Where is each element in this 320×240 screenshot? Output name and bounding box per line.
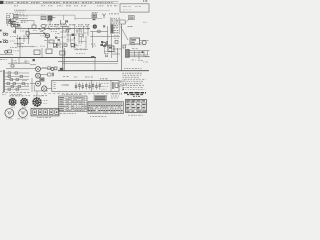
wide table column dividers <box>91 102 121 114</box>
converter extra labels <box>56 27 60 29</box>
det output cluster <box>108 46 114 51</box>
antenna transformer L1 <box>14 15 19 18</box>
left mixer box <box>26 32 30 35</box>
IF junction <box>74 37 76 39</box>
voltage chart rows <box>59 98 88 109</box>
P S terminal marks <box>53 82 56 88</box>
RF cluster extra ink <box>9 19 12 21</box>
wire jack to box <box>47 88 52 90</box>
tube layout header <box>10 95 25 97</box>
speaker stub wires <box>119 82 123 86</box>
jack resistor <box>48 67 51 70</box>
det labels right <box>114 26 119 28</box>
impedance labels <box>145 55 150 57</box>
dipole antenna Y symbol <box>102 14 105 19</box>
speaker field labels <box>126 44 135 46</box>
IF lower cluster 1 <box>64 44 67 46</box>
det extra vertical <box>104 44 112 54</box>
IF top text band <box>46 24 53 26</box>
right table caption <box>128 114 143 116</box>
wire to converter <box>20 46 34 57</box>
IF lower cluster 2 dark <box>71 43 74 46</box>
det lower marks <box>91 43 96 45</box>
header subtitle text <box>14 5 18 7</box>
det vertical mark <box>104 25 105 28</box>
det small box right <box>123 45 126 48</box>
voltage chart cell marks <box>69 96 70 99</box>
IF vertical right <box>85 36 87 48</box>
second AVC line <box>62 63 118 65</box>
RF cluster small dark square <box>17 24 19 26</box>
bottom dashed border <box>44 93 120 95</box>
voltage chart outer grid <box>59 96 88 111</box>
shielded coil dark <box>48 16 52 20</box>
mid above-bus labels <box>32 46 38 48</box>
bus end mark <box>91 55 95 57</box>
wire IF horizontal <box>60 26 68 28</box>
wire diagonal to stamp <box>125 20 128 23</box>
wide table caption <box>90 115 107 117</box>
wire V1 cathode <box>47 38 49 48</box>
box divider 1 <box>91 80 93 91</box>
RF cluster extra blob <box>12 22 15 25</box>
IF cap dark box <box>72 34 74 36</box>
speaker terminal ladder <box>129 51 149 57</box>
wide table header marks <box>89 101 91 104</box>
dark square on ground <box>60 68 63 71</box>
page number top right <box>143 0 148 2</box>
left mid tuning cluster wires <box>18 35 24 46</box>
tube base diagram B2 <box>21 99 28 106</box>
bus left box <box>60 51 65 55</box>
det cluster dark rect <box>103 45 106 47</box>
RF input cluster <box>10 18 13 26</box>
padder capacitor <box>18 44 21 46</box>
label box stamp <box>128 16 134 20</box>
volume pot dark <box>51 68 54 71</box>
switch contact rows <box>5 72 29 74</box>
phono jack pair 1 <box>3 33 5 35</box>
tube base diagram B1 <box>9 99 16 106</box>
left B+ components <box>5 50 8 53</box>
det resistor box <box>98 30 101 32</box>
parts block right text <box>111 95 119 97</box>
switch label left <box>0 70 3 72</box>
junction node <box>19 38 21 40</box>
coil side marks <box>53 17 57 19</box>
terminal strip components <box>33 110 37 115</box>
mid above-bus box 1 <box>34 50 40 55</box>
extra mid labels <box>67 41 71 43</box>
center double vertical wire <box>63 46 64 71</box>
RF labels right <box>19 18 28 20</box>
pulley labels <box>6 118 13 120</box>
wire RF down <box>15 24 17 34</box>
B+ bus wire <box>0 57 96 59</box>
left B+ cluster text <box>10 47 18 49</box>
AVC bus wire <box>58 60 118 62</box>
IF resistor box 2 <box>79 34 82 36</box>
box divider 2 <box>110 80 112 91</box>
terminal strip box <box>31 108 59 116</box>
signal bus junction dots <box>28 28 29 29</box>
caption under box left <box>42 95 47 97</box>
A-130 label <box>128 25 133 27</box>
wire left b+ <box>0 53 13 55</box>
header title text <box>6 2 14 4</box>
IF vertical wires <box>62 24 88 48</box>
model title line 2 <box>127 94 143 96</box>
det wire h2 <box>90 35 120 37</box>
L wire to speaker <box>34 85 48 91</box>
input jack J5 <box>36 81 41 86</box>
model title line 1 <box>124 92 146 94</box>
svg-text:CONE: CONE <box>61 83 69 87</box>
wire cluster to converter <box>20 21 34 26</box>
note bullet <box>122 89 124 91</box>
osc coil label AWT <box>41 14 46 16</box>
left edge mark 1 <box>0 30 2 32</box>
wide table cell marks <box>89 105 91 106</box>
mid above-bus box 2 <box>46 49 52 54</box>
wire vertical x95 to ground <box>94 58 96 71</box>
switch top wire <box>6 67 30 69</box>
scan speckle texture <box>1 0 149 118</box>
RF cluster lower extension <box>11 25 14 28</box>
trimmer box V1 grid <box>32 25 36 29</box>
parts list dark block <box>94 96 107 101</box>
switch bank header text <box>11 62 18 64</box>
jack column vertical <box>30 78 36 92</box>
dark mark below bus left-center <box>33 59 35 61</box>
header corner mark <box>0 1 4 4</box>
jack wiring right <box>41 68 53 74</box>
header top rule <box>4 1 119 3</box>
long antenna wire <box>18 15 75 20</box>
header bottom rule <box>4 3 119 5</box>
output tube box <box>130 38 140 44</box>
schematic left border dashes <box>2 91 30 93</box>
dial list row rules <box>110 20 119 25</box>
tube V1 6BE6 <box>45 34 49 38</box>
lower right scatter text <box>132 59 136 61</box>
ground bus wire <box>58 70 149 72</box>
table title above <box>62 94 82 96</box>
long wire under header right <box>16 10 110 12</box>
phono jack pair 2 label <box>2 38 7 40</box>
dial pulley rear <box>19 109 28 118</box>
wire lower left <box>14 43 24 45</box>
wire drop from signal bus <box>28 29 30 44</box>
box mid-right text marks <box>101 82 110 84</box>
tube base diagram B3 <box>33 98 41 106</box>
left below-bus wires <box>12 58 26 64</box>
mid bus text marks <box>76 53 85 55</box>
osc cluster extra marks <box>58 39 60 41</box>
loop antenna symbol <box>7 15 10 18</box>
mid vertical wire <box>41 48 43 58</box>
wire up from socket <box>36 91 38 97</box>
B3 side marks <box>44 100 48 102</box>
terminal strip caption <box>37 117 51 119</box>
extra mid wires <box>58 40 86 44</box>
det drops left <box>77 29 82 34</box>
dial list dark col <box>111 24 114 33</box>
alignment wide table outer <box>88 102 124 114</box>
coil bottom labels <box>47 20 53 22</box>
B2 label <box>22 106 27 108</box>
legend mini box <box>89 108 92 112</box>
diagonal wire right <box>121 27 129 41</box>
dial pulley front <box>5 109 14 118</box>
output transformer dark block <box>125 50 129 58</box>
left edge mark 2 <box>0 41 2 43</box>
right edge vertical wire <box>121 24 123 71</box>
tone cluster dark <box>40 78 44 81</box>
terminal label box <box>120 20 125 24</box>
phono jack pair 2 <box>3 40 5 42</box>
osc labels cluster <box>50 28 57 30</box>
voltage chart caption <box>60 113 76 115</box>
input jack J4 <box>36 73 41 78</box>
info box top right <box>120 4 149 12</box>
long chassis box <box>52 80 119 91</box>
mid ticks line <box>74 48 88 50</box>
short branch wire <box>16 17 26 19</box>
right table columns <box>131 99 142 112</box>
IF can mark <box>66 20 68 22</box>
dial list header <box>109 13 119 15</box>
RF text right rows <box>21 21 27 23</box>
osc grid resistor box <box>49 40 54 43</box>
wire coil down <box>49 20 51 25</box>
signal bus wire y28.7 <box>16 28 91 30</box>
left mid labels <box>10 35 16 37</box>
det lower cluster dark <box>102 42 106 46</box>
det cluster dark rect 2 <box>101 44 103 46</box>
signal bus junctions right <box>79 28 80 29</box>
det bottom cluster marks <box>105 53 110 55</box>
notes text block <box>122 72 141 74</box>
IF horizontal wires <box>60 32 77 35</box>
det right component <box>115 41 118 44</box>
wire diagonal grid <box>40 28 49 32</box>
dial lamp oval <box>41 25 46 28</box>
RF mini circle <box>13 31 15 33</box>
voltage chart row labels <box>59 96 64 99</box>
switch small box <box>11 65 14 67</box>
det wire h1 <box>90 30 108 32</box>
osc transformer box <box>41 17 46 20</box>
jack lower components <box>48 73 51 76</box>
speaker stub labels <box>120 80 126 82</box>
socket header text <box>34 95 44 97</box>
input jack J3 <box>36 67 41 72</box>
IF resistor box 1 <box>66 30 69 32</box>
tube V2 dark top <box>93 25 96 28</box>
output label <box>100 78 108 80</box>
det dark blob <box>93 18 96 20</box>
right table rows <box>126 103 147 110</box>
filter cap row in box <box>75 83 77 90</box>
right table title <box>133 95 140 97</box>
V1 type label text <box>54 23 60 25</box>
osc cap cluster dark <box>53 43 56 46</box>
labels above long box <box>63 76 69 78</box>
wide table header divider <box>88 104 124 109</box>
wire to jack1 <box>30 65 36 69</box>
B1 label <box>11 106 16 108</box>
RF marks near wire start <box>15 27 19 29</box>
IF value labels <box>63 30 67 32</box>
wire plate line <box>30 33 45 35</box>
stereo note line <box>124 68 142 70</box>
L1 value label <box>20 15 28 17</box>
converter dark bits <box>55 37 57 39</box>
diagonal wire osc injection <box>39 29 48 37</box>
det box component <box>92 14 97 18</box>
wires around output <box>140 41 149 44</box>
switch bank right marks <box>22 80 28 82</box>
speaker caption dark <box>112 93 122 95</box>
right circle component <box>142 41 146 45</box>
tiny label right edge <box>143 21 147 23</box>
det label text <box>92 12 98 14</box>
band switch double vertical <box>4 70 5 92</box>
antenna section label rows <box>14 9 26 11</box>
dial list table <box>110 17 119 34</box>
left bottom caption <box>11 93 22 95</box>
corner tiny text <box>2 94 6 96</box>
wire to antenna Y <box>75 18 102 20</box>
jack labels <box>42 67 47 69</box>
output transformer in box <box>113 82 114 89</box>
right table cell marks <box>126 100 130 101</box>
info box text <box>123 6 131 8</box>
ladder node dot <box>142 51 144 53</box>
voltage chart columns <box>66 96 84 111</box>
IF can box top <box>60 20 65 24</box>
right table outer <box>126 99 147 112</box>
det verticals <box>92 26 111 58</box>
phono jack pair 1 label <box>2 31 7 33</box>
note bullet text <box>125 88 144 90</box>
junction blob <box>44 33 46 35</box>
headphone jack J6 <box>42 86 47 91</box>
header right bit <box>26 94 31 96</box>
